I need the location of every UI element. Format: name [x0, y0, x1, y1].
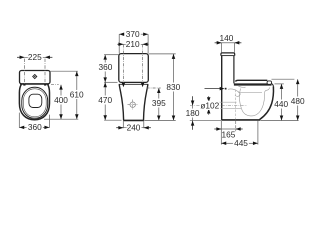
tank front edge: [233, 56, 235, 84]
cistern plan outline: [20, 71, 51, 84]
dim 140 right arrow: [234, 41, 241, 45]
dim 360 line: [19, 126, 49, 128]
base bottom line: [222, 119, 261, 121]
dim 370 ext left elbow: [118, 34, 120, 53]
water line hidden: [238, 91, 262, 93]
dim 470 line: [104, 82, 106, 120]
bolt arrow right: [141, 83, 145, 88]
dim 440 line: [281, 84, 283, 121]
drain crosshair h: [128, 104, 138, 106]
ext hook 360 left: [18, 113, 20, 128]
dim 210 line: [123, 43, 142, 45]
dim 240 right arrow: [144, 126, 151, 130]
svg-text:400: 400: [54, 95, 68, 105]
svg-text:360: 360: [28, 122, 42, 132]
cistern lid bottom line: [221, 55, 235, 57]
svg-text:ø102: ø102: [200, 100, 219, 110]
inner bowl hidden profile: [239, 87, 269, 116]
dim 610 arrows: [75, 71, 79, 119]
dim 140 left arrow: [215, 41, 222, 45]
dim 610 line: [76, 71, 78, 119]
dim 370 ext right elbow: [147, 34, 149, 53]
dim 165 right arrow: [236, 127, 243, 131]
dim 395 arrows: [157, 88, 161, 120]
dim 225 line: [25, 56, 46, 58]
ext line hinge dashdot right: [51, 84, 59, 86]
svg-text:610: 610: [70, 90, 84, 100]
rim band: [234, 83, 272, 85]
pedestal right side: [144, 84, 148, 120]
dim 240 left arrow: [116, 126, 123, 130]
outlet pipe bottom hidden: [211, 108, 242, 110]
bolt arrow left: [122, 83, 126, 88]
outlet pipe top hidden: [211, 101, 237, 103]
pedestal base line: [123, 119, 144, 121]
ext floor far left: [190, 120, 222, 122]
dim 180 bottom arrow: [191, 121, 195, 130]
ext rim top right for 440: [275, 83, 284, 85]
flush button: [33, 75, 37, 79]
dim 225 left arrow: [17, 56, 25, 60]
ext 165 right (outlet cl): [235, 121, 237, 131]
dim 445 arrows: [221, 142, 258, 146]
water inlet mark: [225, 88, 227, 90]
svg-text:445: 445: [234, 138, 248, 148]
dim 210 right arrow: [143, 43, 149, 47]
svg-text:210: 210: [126, 39, 140, 49]
dim 480 line: [297, 79, 299, 120]
dim 830 line: [173, 54, 175, 121]
svg-text:370: 370: [126, 29, 140, 39]
ext 445 right hook: [257, 120, 259, 144]
dim 445 line: [221, 142, 258, 144]
hinge bolt right: [44, 83, 46, 85]
dim 400 line: [60, 85, 62, 120]
ext floor left: [104, 119, 121, 121]
dim 240 line: [123, 127, 144, 129]
dim 440 arrows: [280, 84, 284, 121]
dim diam102 arrows: [207, 97, 211, 113]
dim 140 line: [222, 42, 235, 44]
cistern bowl junction line: [119, 83, 149, 85]
bowl outline (plan): [19, 84, 49, 120]
dim diam102 line: [208, 96, 210, 115]
dim 470 arrows: [103, 82, 107, 120]
seat cover top: [235, 80, 267, 81]
svg-text:180: 180: [186, 108, 200, 118]
dim 360 arrows: [19, 126, 49, 129]
rim underside hidden curve: [239, 86, 246, 87]
svg-text:395: 395: [152, 98, 166, 108]
dim 165 line: [221, 128, 235, 130]
bolt centerline right: [142, 44, 144, 85]
centerline right for 225: [44, 59, 46, 84]
dim 180 line: [192, 106, 194, 121]
dim 830 arrows: [172, 54, 176, 121]
ext hook 360 right: [48, 115, 50, 128]
dim 210 left arrow: [117, 43, 123, 47]
dim 225 right arrow: [45, 56, 52, 60]
seat opening: [29, 94, 42, 107]
ext line cistern top right: [50, 70, 78, 72]
water inlet leader: [205, 87, 225, 91]
flush button dot: [34, 76, 35, 77]
cistern front outline: [119, 54, 149, 83]
dim 395 line: [158, 88, 160, 120]
svg-text:470: 470: [98, 95, 112, 105]
dim 360L line: [104, 55, 106, 83]
hinge bolt left: [23, 83, 25, 85]
drain crosshair circle: [130, 102, 135, 107]
cover front bumper: [267, 81, 271, 84]
drain crosshair v: [132, 100, 134, 110]
ext cistern top right for 830: [149, 53, 176, 55]
bolt centerline left: [122, 44, 124, 85]
tank back edge: [221, 56, 223, 120]
ext holes dashdot for 395: [147, 87, 161, 89]
svg-text:440: 440: [274, 99, 288, 109]
seat underside squiggle: [228, 89, 240, 96]
outlet centerline: [190, 105, 247, 107]
dim 370 arrows: [119, 32, 148, 36]
svg-text:140: 140: [219, 33, 233, 43]
trap hidden vertical: [235, 90, 237, 120]
rim front tip: [271, 84, 273, 87]
bowl front curve: [260, 87, 274, 120]
seat ring inner edge: [23, 89, 46, 117]
ext floor right side: [261, 120, 299, 122]
svg-text:360: 360: [98, 62, 112, 72]
ext floor right for 830: [144, 119, 176, 121]
dim 480 arrows: [296, 79, 300, 120]
dim 360L arrows: [103, 55, 107, 83]
centerline left for 225: [24, 59, 26, 84]
svg-text:830: 830: [166, 82, 180, 92]
svg-text:240: 240: [127, 123, 141, 133]
dim 140 ext lines: [222, 43, 235, 53]
dim 180 top arrow: [191, 96, 195, 105]
ext cover top right for 480: [272, 78, 295, 80]
ext 165 left hook: [220, 121, 222, 145]
dim 370 line: [119, 33, 148, 35]
ext cistern bottom left: [104, 81, 117, 83]
ext cistern top left: [104, 54, 119, 56]
pedestal left side: [119, 84, 123, 120]
svg-text:225: 225: [28, 52, 42, 62]
cistern lid side: [221, 53, 235, 56]
cistern bottom line (plan): [20, 83, 49, 85]
svg-text:480: 480: [291, 96, 305, 106]
dim 400 arrows: [59, 85, 63, 120]
dim 240 ext hooks: [123, 121, 144, 128]
dim 165 left arrow: [214, 127, 221, 131]
seat ring outer: [22, 87, 48, 118]
ext line bowl front bottom: [44, 118, 78, 120]
